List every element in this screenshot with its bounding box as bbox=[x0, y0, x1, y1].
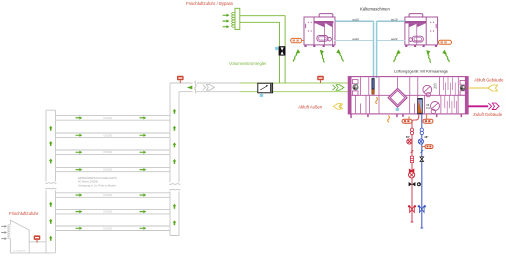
silencer baffles top row bbox=[443, 77, 455, 95]
svg-text:Volumenstromregler: Volumenstromregler bbox=[229, 61, 267, 66]
AHU section dividers top row bbox=[360, 77, 458, 95]
chiller K1 coil fin 2 bbox=[326, 23, 333, 27]
svg-text:FU: FU bbox=[426, 106, 430, 110]
svg-text:Lüftungsgerät mit Klimaanlage: Lüftungsgerät mit Klimaanlage bbox=[394, 69, 449, 74]
chiller K1 coil fin 1 bbox=[316, 23, 325, 27]
chiller K1 condenser band bbox=[314, 21, 333, 23]
pipe K1 riser bbox=[373, 21, 375, 81]
chiller K1 handle bbox=[304, 24, 307, 28]
pipe K2 riser bbox=[376, 21, 378, 78]
sensor T2 duct before AHU bbox=[317, 76, 324, 83]
AHU damper right boxes bbox=[460, 80, 466, 85]
pipe K1 return au22 bbox=[335, 40, 374, 42]
sensor bypass bbox=[275, 47, 279, 51]
node supply arrow magenta bbox=[488, 103, 499, 109]
flex connector box P1 bbox=[402, 116, 412, 123]
pipe K2 supply au10 bbox=[377, 20, 406, 22]
bypass damper housing bbox=[235, 8, 240, 29]
node condenser air arrows K1 bbox=[293, 49, 300, 62]
pipe end cap red bbox=[411, 221, 414, 223]
valve pair red bbox=[410, 128, 413, 135]
node exhaust-in arrow yellow bbox=[488, 85, 498, 91]
svg-text:DN200: DN200 bbox=[104, 226, 113, 230]
chiller K2 panel dots bbox=[430, 22, 431, 23]
volume flow controller V1 bbox=[258, 83, 273, 93]
union tick red bbox=[411, 150, 414, 153]
svg-text:DN200: DN200 bbox=[104, 210, 113, 214]
wire bypass inner line bbox=[240, 22, 280, 83]
svg-text:DN200: DN200 bbox=[104, 133, 113, 137]
valve pair blue bbox=[420, 128, 423, 135]
pipe return blue bbox=[421, 113, 423, 228]
sensor T1 duct at shaft corner bbox=[177, 76, 184, 83]
wire floor duct 3 bbox=[56, 150, 171, 154]
plate heat exchanger diamond bbox=[388, 88, 407, 107]
AHU section dividers bottom row bbox=[356, 95, 459, 113]
break symbol duct bbox=[195, 81, 196, 93]
svg-text:DN200: DN200 bbox=[104, 168, 113, 172]
wire duct gray top bbox=[170, 82, 240, 84]
drain siphon below heat exchanger bbox=[388, 116, 390, 123]
damper motor M1 left bbox=[353, 84, 358, 90]
node airflow outline arrow green into AHU bbox=[333, 85, 345, 90]
fan F2 bottom-row bbox=[431, 102, 440, 111]
node bypass inlet arrows bbox=[223, 14, 230, 17]
pipe exhaust from building yellow bbox=[468, 87, 488, 89]
svg-text:Frischluftzufuhr / Bypass: Frischluftzufuhr / Bypass bbox=[186, 1, 233, 6]
svg-text:ERDWÄRMETAUSCHER (EWT): ERDWÄRMETAUSCHER (EWT) bbox=[78, 176, 117, 180]
svg-text:16°: 16° bbox=[424, 135, 428, 139]
svg-text:V= 5000m³/h: V= 5000m³/h bbox=[13, 250, 26, 253]
three-way valve with pump red bbox=[409, 169, 415, 178]
wire floor duct 5 bbox=[56, 193, 171, 198]
chiller unit K2 bbox=[405, 14, 438, 45]
pipe K2 return au22 bbox=[377, 40, 406, 42]
svg-text:Abluft Außen: Abluft Außen bbox=[298, 105, 323, 110]
chiller K2 feet bbox=[405, 45, 407, 47]
node intake air arrows bbox=[1, 225, 7, 228]
sensor T3 intake temperature bbox=[34, 235, 41, 242]
svg-text:Zuluft Gebäude: Zuluft Gebäude bbox=[473, 112, 503, 117]
node exhaust-out arrow yellow bbox=[333, 104, 343, 109]
connector box K1 electrical bbox=[291, 38, 304, 42]
drain valve red bbox=[408, 206, 416, 213]
label EWT note bbox=[78, 176, 117, 187]
wire right shaft upper segment bbox=[170, 83, 179, 183]
cooling coil bottom-row (cw/hw fed) bbox=[418, 98, 423, 114]
svg-text:Frischluftzufuhr: Frischluftzufuhr bbox=[9, 211, 39, 216]
svg-text:FU: FU bbox=[434, 86, 438, 90]
label duct size texts bbox=[104, 116, 113, 230]
node shaft up arrows bbox=[49, 109, 176, 241]
svg-text:au10: au10 bbox=[352, 17, 359, 21]
svg-text:Verlegung in 2m Tiefe im Boden: Verlegung in 2m Tiefe im Boden bbox=[78, 183, 117, 187]
svg-text:Abluft Gebäude: Abluft Gebäude bbox=[474, 77, 504, 82]
strainer red bbox=[410, 156, 413, 162]
silencer baffles bottom row bbox=[445, 96, 457, 114]
union tick blue bbox=[421, 150, 424, 153]
AHU damper left boxes bbox=[352, 80, 358, 84]
shutoff valve black on red bbox=[409, 182, 416, 186]
pipe K1 supply au10 bbox=[335, 20, 374, 22]
wire floor duct 7 bbox=[56, 226, 171, 231]
AHU right mounting bar bbox=[465, 77, 468, 114]
pipe end cap blue bbox=[420, 227, 423, 229]
valve black on blue bbox=[420, 157, 424, 162]
svg-text:DN200: DN200 bbox=[104, 150, 113, 154]
bypass damper actuator box bbox=[279, 46, 286, 55]
chiller K1 feet bbox=[304, 45, 306, 47]
node green arrow toward shaft bbox=[187, 86, 193, 90]
wire right shaft lower segment bbox=[170, 192, 179, 236]
pump red bbox=[407, 139, 412, 144]
node airflow outline arrow gray bbox=[203, 85, 215, 91]
flex connector box P3 bbox=[422, 145, 433, 149]
pipe supply to building magenta bbox=[468, 105, 488, 107]
connector box K2 electrical bbox=[438, 40, 452, 44]
chiller K1 panel dots bbox=[308, 22, 309, 23]
break symbol right shaft bbox=[169, 183, 181, 192]
svg-text:au22: au22 bbox=[391, 37, 398, 41]
intake hood outline bbox=[10, 220, 29, 253]
svg-text:DN200: DN200 bbox=[104, 193, 113, 197]
damper motor M2 right bbox=[460, 85, 465, 90]
svg-text:au22: au22 bbox=[352, 37, 359, 41]
pump blue bbox=[418, 139, 423, 144]
wire intake duct to shaft bbox=[29, 242, 55, 253]
sensor flow V1 bbox=[260, 94, 264, 98]
fan F1 supply-row bbox=[423, 85, 432, 94]
svg-text:Kältemaschinen: Kältemaschinen bbox=[360, 7, 390, 12]
drain siphon coil top bbox=[376, 97, 378, 104]
svg-text:au10: au10 bbox=[391, 17, 398, 21]
chiller K2 coil fin 1 bbox=[409, 23, 418, 27]
flex connector box P2 bbox=[423, 114, 433, 123]
filter zigzag intake bbox=[8, 225, 11, 239]
chiller K2 condenser band bbox=[405, 21, 426, 23]
wire floor duct 1 bbox=[56, 116, 171, 121]
break symbol left shaft bbox=[45, 182, 57, 191]
AHU casing frame bbox=[348, 77, 468, 114]
chiller unit K1 bbox=[304, 14, 335, 45]
AHU left mounting bar bbox=[348, 77, 351, 114]
svg-text:DN200: DN200 bbox=[104, 116, 113, 120]
small pump black bbox=[417, 182, 421, 186]
cooling coil top-row (chiller fed) bbox=[372, 78, 375, 94]
drain valve blue bbox=[418, 206, 426, 213]
wire duct gray bottom bbox=[179, 91, 240, 93]
wire floor duct 4 bbox=[56, 167, 171, 171]
node floor arrows left column bbox=[76, 116, 147, 230]
svg-text:40 Rohre DN200: 40 Rohre DN200 bbox=[78, 180, 99, 184]
node condenser air arrows K2 bbox=[394, 50, 401, 63]
sensor below heat exchanger bbox=[395, 108, 399, 112]
wire duct green bottom bbox=[240, 91, 349, 93]
wire duct green top bbox=[240, 82, 349, 84]
AHU feet bbox=[350, 114, 462, 118]
wire floor duct 2 bbox=[56, 133, 171, 138]
wire floor duct 6 bbox=[56, 209, 171, 214]
chiller K2 handle bbox=[435, 24, 438, 28]
wire bypass outer line bbox=[240, 16, 285, 83]
filter zigzag bypass bbox=[232, 12, 235, 27]
AHU mid split bbox=[352, 94, 465, 96]
wire left shaft lower segment bbox=[46, 191, 56, 253]
pipe heating supply red bbox=[412, 114, 419, 222]
chiller K2 coil fin 2 bbox=[417, 23, 426, 27]
wire left shaft upper segment bbox=[46, 110, 56, 181]
